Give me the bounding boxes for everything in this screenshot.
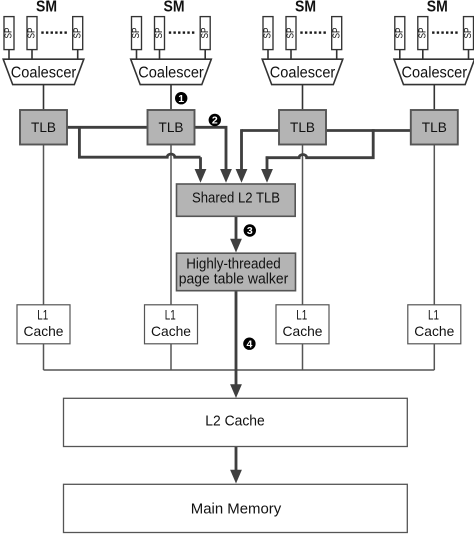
svg-text:L1: L1 — [296, 306, 307, 322]
svg-text:TLB: TLB — [31, 119, 56, 135]
svg-text:Coalescer: Coalescer — [402, 65, 468, 82]
svg-text:TLB: TLB — [290, 119, 315, 135]
svg-text:Cache: Cache — [414, 323, 454, 339]
svg-text:SP: SP — [463, 27, 474, 38]
svg-text:Cache: Cache — [24, 323, 64, 339]
svg-text:SP: SP — [331, 27, 342, 38]
svg-text:Cache: Cache — [151, 323, 191, 339]
svg-text:L1: L1 — [428, 306, 439, 322]
svg-text:Highly-threaded: Highly-threaded — [186, 256, 281, 272]
svg-text:SM: SM — [36, 0, 57, 16]
svg-text:SP: SP — [131, 27, 142, 38]
svg-text:SP: SP — [263, 27, 274, 38]
svg-text:4: 4 — [246, 338, 252, 350]
svg-text:Coalescer: Coalescer — [138, 65, 204, 82]
svg-text:SP: SP — [394, 27, 405, 38]
svg-text:SM: SM — [427, 0, 448, 16]
svg-text:TLB: TLB — [159, 119, 184, 135]
svg-text:SP: SP — [27, 27, 38, 38]
svg-text:Shared L2 TLB: Shared L2 TLB — [192, 190, 280, 206]
svg-text:Cache: Cache — [283, 323, 323, 339]
svg-text:SM: SM — [164, 0, 185, 16]
svg-text:SM: SM — [295, 0, 316, 16]
svg-text:Coalescer: Coalescer — [11, 65, 77, 82]
svg-text:3: 3 — [247, 225, 253, 237]
svg-text:SP: SP — [72, 27, 83, 38]
svg-text:page table walker: page table walker — [179, 271, 289, 287]
svg-text:SP: SP — [154, 27, 165, 38]
svg-text:SP: SP — [417, 27, 428, 38]
svg-text:Coalescer: Coalescer — [270, 65, 336, 82]
svg-text:TLB: TLB — [422, 119, 447, 135]
svg-text:SP: SP — [4, 27, 15, 38]
svg-text:1: 1 — [178, 93, 184, 105]
svg-text:L1: L1 — [165, 306, 176, 322]
svg-text:Main Memory: Main Memory — [191, 502, 282, 518]
svg-text:SP: SP — [286, 27, 297, 38]
svg-text:2: 2 — [212, 115, 218, 127]
svg-text:L1: L1 — [37, 306, 48, 322]
svg-text:L2 Cache: L2 Cache — [205, 413, 265, 429]
svg-text:SP: SP — [200, 27, 211, 38]
